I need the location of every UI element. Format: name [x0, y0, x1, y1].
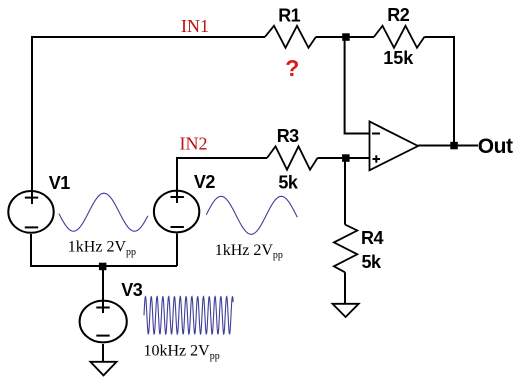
svg-text:R2: R2 — [387, 5, 409, 25]
svg-text:R3: R3 — [277, 126, 299, 146]
svg-text:10kHz 2Vpp: 10kHz 2Vpp — [144, 343, 220, 362]
svg-text:1kHz 2Vpp: 1kHz 2Vpp — [215, 242, 283, 261]
svg-text:V2: V2 — [194, 172, 216, 192]
svg-text:R4: R4 — [361, 228, 383, 248]
svg-text:1kHz 2Vpp: 1kHz 2Vpp — [68, 238, 136, 257]
svg-text:V1: V1 — [49, 173, 71, 193]
svg-text:15k: 15k — [383, 48, 414, 68]
svg-text:V3: V3 — [121, 280, 143, 300]
svg-text:Out: Out — [478, 135, 513, 158]
svg-text:R1: R1 — [278, 5, 300, 25]
svg-text:5k: 5k — [362, 252, 383, 272]
svg-text:?: ? — [285, 55, 299, 81]
svg-text:IN2: IN2 — [180, 134, 208, 154]
svg-text:5k: 5k — [278, 173, 299, 193]
svg-text:IN1: IN1 — [181, 16, 209, 36]
